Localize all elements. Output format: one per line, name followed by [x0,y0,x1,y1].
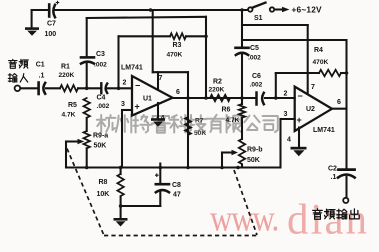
svg-text:www.: www. [210,198,278,239]
svg-text:U1: U1 [143,96,152,103]
svg-text:7: 7 [159,75,163,82]
svg-text:R5: R5 [68,102,77,109]
svg-text:.002: .002 [250,82,263,89]
svg-text:2: 2 [284,91,288,98]
svg-text:47: 47 [173,192,181,199]
svg-text:U2: U2 [306,106,315,113]
svg-text:50K: 50K [194,130,206,137]
svg-text:C3: C3 [96,51,105,58]
svg-text:−: − [298,91,303,101]
svg-text:4.7K: 4.7K [62,112,76,119]
svg-text:.002: .002 [94,62,107,69]
svg-text:7: 7 [311,84,315,91]
svg-text:4: 4 [161,115,165,122]
svg-text:R9-b: R9-b [247,147,263,154]
svg-text:3: 3 [284,111,288,118]
svg-text:6: 6 [337,99,341,106]
svg-text:−: − [135,80,140,90]
svg-text:.002: .002 [248,55,261,62]
svg-text:4: 4 [287,137,291,144]
svg-text:470K: 470K [313,59,329,66]
svg-text:6: 6 [176,89,180,96]
svg-text:R6: R6 [222,107,231,114]
svg-text:C6: C6 [252,73,261,80]
svg-text:50K: 50K [94,143,107,150]
svg-text:+: + [297,115,302,125]
svg-text:4.7K: 4.7K [226,117,240,124]
svg-text:R3: R3 [173,42,182,49]
svg-text:C4: C4 [97,95,106,102]
svg-text:LM741: LM741 [121,65,143,72]
svg-text:R1: R1 [61,64,70,71]
svg-text:R2: R2 [213,79,222,86]
svg-text:.1: .1 [39,73,45,80]
svg-text:C1: C1 [36,62,45,69]
svg-text:dian: dian [287,197,369,244]
svg-text:C2: C2 [328,166,337,173]
svg-text:100: 100 [45,31,57,38]
svg-text:470K: 470K [167,52,183,59]
svg-text:C5: C5 [250,45,259,52]
svg-text:C8: C8 [172,182,181,189]
svg-text:+6~12V: +6~12V [292,5,323,15]
svg-text:R7: R7 [195,118,204,125]
svg-text:10K: 10K [97,191,110,198]
svg-text:.1: .1 [331,174,337,181]
svg-text:2: 2 [123,80,127,87]
svg-text:C7: C7 [47,21,56,28]
svg-text:220K: 220K [59,72,75,79]
svg-text:R8: R8 [99,179,108,186]
svg-text:S1: S1 [254,15,263,22]
svg-text:LM741: LM741 [313,127,335,134]
svg-text:+: + [135,102,140,112]
svg-text:50K: 50K [247,157,260,164]
svg-text:220K: 220K [209,87,225,94]
svg-text:3: 3 [121,101,125,108]
svg-text:.002: .002 [97,103,110,110]
svg-text:R9-a: R9-a [93,133,108,140]
svg-text:R4: R4 [314,47,323,54]
